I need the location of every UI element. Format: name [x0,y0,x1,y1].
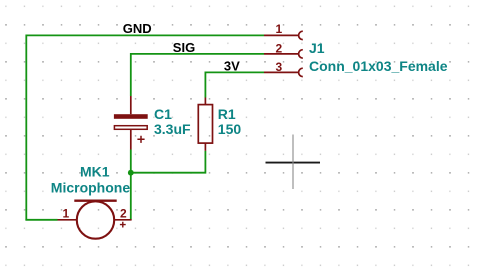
J1 pin 3 line [264,71,299,73]
R1 body [198,105,212,144]
MK1 pin 1 lead [58,219,77,221]
R1 top pin [204,98,206,105]
svg-text:MK1: MK1 [80,163,110,179]
MK1 plus mark [120,222,126,228]
capacitor C1 [114,96,148,150]
J1 pin 1 socket arc [299,31,303,39]
svg-text:2: 2 [120,206,127,220]
svg-text:1: 1 [63,206,70,220]
svg-text:2: 2 [276,42,283,56]
J1 pin 1 line [264,34,299,36]
wire junction to R1 bottom [131,151,206,173]
svg-text:150: 150 [218,121,242,137]
J1 pin 2 line [264,53,299,55]
MK1 pin 2 lead [114,219,131,221]
wire GND vertical left [25,35,27,220]
R1 bottom pin [204,143,206,151]
svg-text:3: 3 [276,60,283,74]
wire GND bottom to mic pin1 [25,219,57,221]
C1 plus mark [137,136,144,143]
svg-text:C1: C1 [154,106,172,122]
junction dot [128,170,134,176]
C1 bottom plate [114,126,147,130]
wire C1 bottom to junction [130,150,132,173]
svg-text:R1: R1 [218,106,236,122]
resistor R1 [198,98,212,151]
C1 bottom pin [130,130,132,150]
svg-text:Microphone: Microphone [51,179,131,195]
wire SIG horizontal [131,53,264,55]
svg-text:GND: GND [123,21,152,36]
C1 top plate [114,114,148,119]
svg-text:3V: 3V [224,58,240,73]
microphone MK1 [58,201,132,239]
cursor crosshair vertical [292,135,294,190]
connector J1 [264,22,303,77]
svg-text:1: 1 [276,22,283,36]
svg-text:3.3uF: 3.3uF [154,121,191,137]
cursor crosshair horizontal [266,162,321,164]
MK1 body circle [77,201,114,238]
svg-text:Conn_01x03_Female: Conn_01x03_Female [309,58,448,74]
C1 top pin [130,96,132,114]
J1 pin 2 socket arc [299,50,303,58]
svg-text:J1: J1 [309,40,325,56]
J1 pin 3 socket arc [299,68,303,76]
wire GND horizontal top [26,34,264,36]
wire 3V horizontal [205,71,264,73]
wire SIG vertical to C1 [130,53,132,96]
MK1 diaphragm line [74,199,116,201]
svg-text:SIG: SIG [173,40,195,55]
wire 3V vertical to R1 [204,72,206,98]
wire junction to mic pin2 [130,173,132,220]
